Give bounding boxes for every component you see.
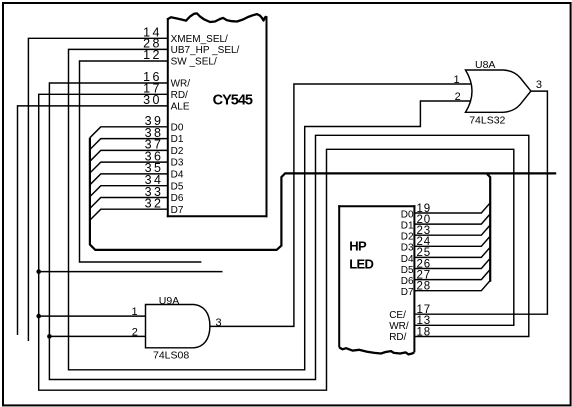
svg-text:D0: D0: [401, 209, 414, 220]
svg-text:U8A: U8A: [475, 59, 495, 71]
wire RD/ pin17 to HP WR/: [39, 94, 514, 390]
wire U8A input 1 from AND output: [210, 84, 471, 326]
wire SW_SEL/ pin12: [80, 61, 202, 262]
wire D1 (pin38): [90, 139, 167, 150]
HP LED pin 18 RD/ label: [389, 326, 431, 343]
svg-text:D2: D2: [401, 232, 414, 243]
svg-text:WR/: WR/: [389, 321, 409, 332]
svg-text:74LS32: 74LS32: [469, 115, 505, 127]
svg-text:D1: D1: [401, 221, 414, 232]
wire XMEM_SEL/ pin14: [28, 38, 167, 341]
wire D4 (pin35): [90, 174, 167, 185]
data bus branch to HP LED: [487, 173, 491, 281]
svg-text:D5: D5: [401, 265, 414, 276]
svg-text:D1: D1: [171, 134, 184, 145]
wire HP D6 (pin27): [415, 269, 490, 279]
wire D3 (pin36): [90, 162, 167, 173]
svg-text:D7: D7: [401, 287, 414, 298]
svg-text:D3: D3: [171, 158, 184, 169]
svg-text:3: 3: [536, 79, 542, 91]
wire HP D3 (pin24): [415, 236, 490, 246]
svg-text:ALE: ALE: [171, 102, 190, 113]
HP LED pins 19,20,23,24,25,26,27,28 D0-D7 labels: [401, 203, 431, 298]
wire D5 (pin34): [90, 186, 167, 197]
svg-text:D6: D6: [171, 193, 184, 204]
CY545 pin 16 WR/: [143, 70, 190, 90]
CY545 pin 14 XMEM_SEL/: [143, 25, 228, 45]
wire D6 (pin33): [90, 198, 167, 209]
svg-text:74LS08: 74LS08: [153, 350, 189, 362]
IC HP LED body: [338, 205, 415, 354]
HP LED pin 17 CE/ label: [389, 304, 431, 321]
wire HP D5 (pin26): [415, 258, 490, 268]
wire HP D4 (pin25): [415, 247, 490, 257]
CY545 pin 30 ALE: [143, 93, 190, 113]
junction dot RD/ stub: [36, 269, 41, 274]
wire HP D0 (pin19): [415, 203, 490, 213]
CY545 pin 12 SW_SEL/: [143, 48, 217, 68]
wire RD/ branch stub: [39, 271, 223, 273]
svg-text:SW _SEL/: SW _SEL/: [171, 57, 217, 68]
svg-text:CE/: CE/: [389, 310, 406, 321]
or-gate U8A: [466, 59, 531, 127]
wire HP D7 (pin28): [415, 281, 490, 291]
junction dot U9A input 1: [36, 314, 41, 319]
svg-text:RD/: RD/: [389, 332, 406, 343]
wire D2 (pin37): [90, 150, 167, 161]
svg-text:LED: LED: [349, 256, 373, 271]
wire U9A input 1: [39, 315, 146, 317]
wire HP D2 (pin23): [415, 225, 490, 235]
wire U9A input 2: [49, 335, 145, 337]
svg-text:CY545: CY545: [213, 92, 253, 108]
wire U8A output to HP CE/: [415, 91, 548, 314]
svg-text:13: 13: [417, 315, 431, 327]
wire ALE pin30: [18, 106, 168, 335]
junction dot U9A input 2: [47, 334, 52, 339]
svg-text:U9A: U9A: [159, 295, 179, 307]
svg-text:D4: D4: [401, 254, 414, 265]
wire D0 (pin39): [90, 127, 167, 138]
svg-text:D2: D2: [171, 146, 184, 157]
svg-text:UB7_HP _SEL/: UB7_HP _SEL/: [171, 45, 240, 56]
svg-text:D4: D4: [171, 170, 184, 181]
svg-text:HP: HP: [349, 238, 367, 253]
data bus D0-D7: [90, 138, 556, 250]
svg-text:18: 18: [417, 326, 431, 338]
wire WR/ pin16 to HP RD/: [49, 83, 528, 380]
wire UB7_HP_SEL/ pin28 to OR gate U8A input 2: [69, 49, 472, 369]
svg-text:XMEM_SEL/: XMEM_SEL/: [171, 34, 228, 45]
CY545 pin 17 RD/: [143, 81, 188, 101]
CY545 pin 28 UB7_HP_SEL/: [143, 36, 239, 56]
CY545 pins 39-32 D0-D7 labels: [145, 114, 184, 216]
svg-text:D3: D3: [401, 243, 414, 254]
svg-text:WR/: WR/: [171, 79, 191, 90]
svg-text:RD/: RD/: [171, 90, 188, 101]
svg-text:3: 3: [215, 317, 221, 329]
IC CY545 body: [167, 13, 268, 217]
svg-text:D7: D7: [171, 205, 184, 216]
svg-text:D0: D0: [171, 122, 184, 133]
HP LED pin 13 WR/ label: [389, 315, 431, 332]
svg-text:D5: D5: [171, 181, 184, 192]
wire HP D1 (pin20): [415, 214, 490, 224]
svg-text:32: 32: [145, 197, 164, 211]
svg-text:D6: D6: [401, 276, 414, 287]
and-gate U9A: [146, 295, 210, 362]
wire D7 (pin32): [90, 209, 167, 220]
svg-text:2: 2: [455, 91, 461, 103]
